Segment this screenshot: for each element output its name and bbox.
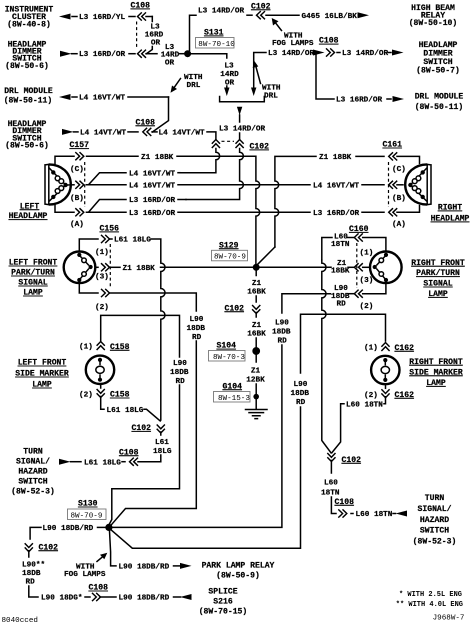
svg-text:L3 14RD/OR: L3 14RD/OR <box>268 50 315 58</box>
svg-text:(A): (A) <box>392 221 406 229</box>
svg-text:L3 16RD/OR: L3 16RD/OR <box>336 97 383 105</box>
svg-text:L3 16RD/YL: L3 16RD/YL <box>79 14 126 22</box>
wire L90 18DB/RD from pin 2 <box>110 293 196 311</box>
svg-text:SIGNAL: SIGNAL <box>423 280 452 289</box>
svg-text:L4 16VT/WT: L4 16VT/WT <box>129 182 176 190</box>
C157 pin A chevron <box>75 208 84 216</box>
wire L3 14RD OR to splice S131 <box>146 53 157 55</box>
svg-text:C102: C102 <box>251 2 271 11</box>
arrow out of bracket down <box>237 107 242 116</box>
svg-text:C102: C102 <box>225 304 245 313</box>
headlamp dimmer switch label (8W-50-6) second <box>5 120 49 151</box>
svg-text:C108: C108 <box>319 37 339 46</box>
svg-text:RD: RD <box>26 579 36 587</box>
svg-text:SIGNAL/: SIGNAL/ <box>418 505 452 514</box>
svg-text:L3 16RD/OR: L3 16RD/OR <box>79 51 126 59</box>
left front side marker lamp label <box>15 359 69 390</box>
DRL module (8W-50-11) label right <box>415 92 464 112</box>
Z1 diagonal into S129 <box>257 247 275 265</box>
svg-text:L4 16VT/WT: L4 16VT/WT <box>313 182 360 190</box>
svg-text:TURN: TURN <box>425 494 445 503</box>
wire Z1 16BK down from S129 <box>255 271 257 276</box>
svg-text:8W-70-9: 8W-70-9 <box>214 254 246 262</box>
svg-text:LEFT: LEFT <box>20 202 40 211</box>
svg-text:C102: C102 <box>342 456 362 465</box>
left front park/turn signal lamp label <box>9 259 58 298</box>
wire C161 pin B to right headlamp <box>397 184 403 186</box>
svg-text:(8W-50-7): (8W-50-7) <box>416 67 460 76</box>
svg-text:HEADLAMP: HEADLAMP <box>431 215 470 224</box>
svg-text:(8W-52-3): (8W-52-3) <box>11 487 55 496</box>
arrow to DRL module (right) <box>393 96 405 102</box>
C160 pin 2 chevron <box>354 290 363 298</box>
svg-text:C157: C157 <box>70 141 90 150</box>
L61 vertical hop over this row <box>161 273 165 421</box>
connector C102 (L60 wire) <box>327 453 335 462</box>
svg-text:SPLICE: SPLICE <box>208 587 237 596</box>
svg-text:(2): (2) <box>95 304 109 312</box>
svg-text:18DB: 18DB <box>291 390 310 398</box>
svg-text:(1): (1) <box>95 249 109 257</box>
C156 pin 3 chevron <box>101 263 110 271</box>
svg-text:LEFT FRONT: LEFT FRONT <box>9 259 58 268</box>
C157 dashed link <box>84 162 86 207</box>
svg-text:* WITH 2.5L ENG: * WITH 2.5L ENG <box>399 591 462 599</box>
splice S216 label <box>199 587 248 616</box>
wire Z1 16BK below C102 <box>255 313 257 318</box>
L60 vertical from C160 pin1 down <box>322 260 331 453</box>
svg-text:L4 16VT/WT: L4 16VT/WT <box>129 170 176 178</box>
svg-text:(8W-50-10): (8W-50-10) <box>409 19 458 28</box>
arrow from turn signal/hazard switch (left) <box>59 459 71 465</box>
svg-text:C108: C108 <box>89 584 109 593</box>
splice S129 <box>253 264 260 271</box>
wire C160 pin3 right side to lamp <box>363 266 370 268</box>
svg-text:L3 14RD/OR: L3 14RD/OR <box>198 8 245 16</box>
wire L90 18DB RD from C160 pin 2 <box>282 294 331 313</box>
high beam relay label <box>409 4 458 28</box>
connector C108 (L4 wire) <box>143 128 152 136</box>
Z1 18BK right segment to right headlamp <box>275 156 316 247</box>
svg-text:(C): (C) <box>70 166 84 174</box>
svg-text:WITH: WITH <box>184 74 203 82</box>
svg-text:L90 18DB/RD: L90 18DB/RD <box>43 525 94 533</box>
svg-text:18DB: 18DB <box>170 369 189 377</box>
svg-text:(8W-70-15): (8W-70-15) <box>199 607 248 616</box>
wire L90 18DB/RD to splice S216 <box>100 596 116 598</box>
wire L4 14VT/WT row <box>74 131 79 133</box>
connector C108 (dimmer switch wire) <box>138 50 147 58</box>
C158 pin 1 chevron <box>97 342 105 351</box>
with drl annotation (left mid) with arrow <box>174 79 181 89</box>
wire from left side marker up and right (L90 branch) <box>101 315 180 357</box>
park lamp relay label <box>202 561 275 580</box>
wire pair L4 16VT/WT from pin B <box>87 173 127 185</box>
svg-text:SIGNAL/: SIGNAL/ <box>16 457 50 466</box>
connector C102 (Z1 wire) <box>252 305 260 314</box>
svg-text:(8W-50-11): (8W-50-11) <box>415 103 464 112</box>
svg-text:L61 18LG: L61 18LG <box>114 237 151 245</box>
instrument cluster label <box>5 6 54 30</box>
svg-text:(8W-40-8): (8W-40-8) <box>7 21 51 30</box>
C160 pin 1 chevron <box>354 233 363 241</box>
wire L61 18LG from pin 1 <box>110 238 112 240</box>
svg-text:S216: S216 <box>213 597 233 606</box>
wire lamp bottom to C158 pin2 <box>100 384 102 388</box>
svg-text:C108: C108 <box>131 2 151 11</box>
svg-text:(2): (2) <box>364 392 378 400</box>
svg-text:C156: C156 <box>100 225 120 234</box>
arrow to DRL module (left) <box>59 94 71 100</box>
svg-text:DRL: DRL <box>187 82 201 90</box>
C161 pin C chevron <box>389 152 398 160</box>
wire from S130 down to park lamp relay row <box>110 531 117 566</box>
svg-text:PARK/TURN: PARK/TURN <box>11 269 55 278</box>
wire L3 14RD/OR to headlamp dimmer switch 8W-50-7 <box>337 52 340 54</box>
wire from left headlamp mid to C157 pin B <box>68 184 75 186</box>
svg-text:C108: C108 <box>119 448 139 457</box>
wire branch down to DRL module (right) <box>316 53 334 100</box>
arrow to headlamp dimmer switch row5 <box>62 129 74 135</box>
ground G104 <box>253 394 259 400</box>
C157 pin B chevron <box>75 181 84 189</box>
svg-text:HEADLAMP: HEADLAMP <box>9 212 48 221</box>
connector C102 (L90 wire, bottom left) <box>25 543 33 552</box>
wire G465 16LB/BK <box>266 14 299 16</box>
right front side marker lamp symbol <box>371 356 399 384</box>
svg-text:FOG LAMPS: FOG LAMPS <box>64 571 106 579</box>
wire lamp top to C156 pin 1 <box>79 239 98 251</box>
svg-text:16RD: 16RD <box>145 31 164 39</box>
C161 pin B chevron <box>389 181 398 189</box>
svg-text:DRL MODULE: DRL MODULE <box>4 87 53 96</box>
svg-text:L4 14VT/WT: L4 14VT/WT <box>80 130 127 138</box>
svg-text:L61: L61 <box>155 439 169 447</box>
svg-text:(1): (1) <box>364 344 378 352</box>
svg-text:L90 18DB/RD: L90 18DB/RD <box>119 595 170 603</box>
svg-text:18DB: 18DB <box>272 328 291 336</box>
svg-text:Z1 18BK: Z1 18BK <box>141 154 174 162</box>
svg-text:SIGNAL: SIGNAL <box>18 279 47 288</box>
svg-text:L90: L90 <box>190 316 204 324</box>
C156 pin 1 chevron <box>101 235 110 243</box>
svg-text:18TN: 18TN <box>321 489 340 497</box>
svg-text:L4 14VT/WT: L4 14VT/WT <box>159 130 206 138</box>
svg-text:WITH: WITH <box>262 85 281 93</box>
C156 dashed link <box>109 244 111 288</box>
svg-text:DRL MODULE: DRL MODULE <box>415 92 464 101</box>
C161 dashed link <box>388 162 390 207</box>
arrow down into bracket (left) <box>224 88 229 97</box>
wire L3 16RD OR down from C108 <box>151 17 153 22</box>
wire L60 18TN from C160 pin 1 <box>322 238 332 261</box>
svg-text:PARK/TURN: PARK/TURN <box>416 269 460 278</box>
splice S104 <box>252 347 260 355</box>
connector C108 (to dimmer switch 8W-50-7) <box>326 48 335 56</box>
C161 pin A chevron <box>389 208 398 216</box>
arrow to splice S216 <box>180 594 192 600</box>
svg-text:C160: C160 <box>349 225 369 234</box>
arrow to high beam relay <box>358 12 370 18</box>
svg-text:(B): (B) <box>392 195 406 203</box>
wire C161 pin C to right headlamp <box>397 156 420 163</box>
svg-text:(C): (C) <box>392 166 406 174</box>
svg-text:FOG LAMPS: FOG LAMPS <box>272 40 314 48</box>
svg-text:8W-70-3: 8W-70-3 <box>213 354 245 362</box>
svg-text:C162: C162 <box>395 391 415 400</box>
svg-text:L61 18LG: L61 18LG <box>107 407 144 415</box>
wire Z1 12BK below S104 <box>255 355 257 362</box>
connector C102 (L61 wire) <box>157 425 165 434</box>
svg-text:L90 18DG*: L90 18DG* <box>41 595 83 603</box>
right headlamp symbol <box>405 164 431 204</box>
svg-text:RD: RD <box>176 378 186 386</box>
svg-text:(8W-50-6): (8W-50-6) <box>5 142 49 151</box>
wire branch: DRL feed joining L4 wire at C108 <box>153 97 169 132</box>
arrow on wire into C108 (to 8W-50-7) <box>313 50 325 56</box>
svg-text:18TN: 18TN <box>331 241 350 249</box>
svg-text:L3 16RD/OR: L3 16RD/OR <box>313 210 360 218</box>
wire L3 16RD/OR <box>72 53 78 55</box>
connector C102 left cavity <box>212 140 220 149</box>
wire L3 16RD/OR down from C102 to headlamp row <box>186 149 243 200</box>
svg-text:16BK: 16BK <box>247 330 266 338</box>
svg-text:LAMP: LAMP <box>23 289 43 298</box>
arrow down into bracket (right) <box>251 88 256 97</box>
svg-text:L3 16RD/OR: L3 16RD/OR <box>129 197 176 205</box>
turn signal/hazard switch label (left) <box>11 447 55 496</box>
wire L4 16VT/WT to DRL module <box>72 96 77 98</box>
svg-text:C158: C158 <box>110 391 130 400</box>
arrow to park lamp relay <box>180 563 192 569</box>
dashed link between C108 cavities <box>136 22 138 50</box>
svg-text:8W-70-10: 8W-70-10 <box>198 41 235 49</box>
wire L60 18TN below C102 <box>330 461 332 474</box>
connector C108 (L61 wire) <box>130 458 139 466</box>
svg-text:L90 18DB/RD: L90 18DB/RD <box>119 564 170 572</box>
wire Z1 18BK from pin C <box>87 155 139 157</box>
C157 pin C chevron <box>75 152 84 160</box>
svg-text:L3 14RD/OR: L3 14RD/OR <box>342 50 389 58</box>
wire L61 18LG below C102 <box>160 432 162 435</box>
svg-text:L60 18TN: L60 18TN <box>346 401 383 409</box>
svg-text:RD: RD <box>337 301 347 309</box>
DRL module (8W-50-11) label left <box>4 87 53 105</box>
right front park/turn signal lamp label <box>411 259 465 299</box>
left front side marker lamp symbol <box>86 356 114 384</box>
merge bracket under the two WITH-DRL arrows <box>220 97 265 102</box>
svg-text:18LG: 18LG <box>153 448 172 456</box>
with drl annotation (right) <box>256 65 261 84</box>
wire L61 18LG from C158 pin 2 <box>101 397 104 410</box>
svg-text:L90: L90 <box>173 360 187 368</box>
wire lamp mid to C156 pin 3 <box>95 266 98 268</box>
wire C160 pin1 right side to lamp top <box>363 238 386 252</box>
wire lamp bottom to C156 pin 2 <box>79 284 98 293</box>
svg-text:C108: C108 <box>136 118 156 127</box>
svg-text:OR: OR <box>165 59 175 67</box>
svg-text:C102: C102 <box>39 543 59 552</box>
svg-text:RIGHT: RIGHT <box>438 204 462 213</box>
svg-text:SIDE MARKER: SIDE MARKER <box>15 370 69 379</box>
headlamp dimmer switch (8W-50-7) label <box>416 41 460 76</box>
svg-text:TURN: TURN <box>23 447 43 456</box>
left front park/turn signal lamp symbol <box>64 251 96 283</box>
svg-text:L60: L60 <box>324 479 338 487</box>
svg-text:L3: L3 <box>224 63 234 71</box>
svg-text:L90**: L90** <box>22 562 45 570</box>
svg-text:RD: RD <box>278 337 288 345</box>
svg-text:HAZARD: HAZARD <box>420 516 449 525</box>
svg-text:S104: S104 <box>217 342 237 351</box>
svg-text:(3): (3) <box>95 273 109 281</box>
wire C161 pin A to right headlamp <box>397 206 420 213</box>
C160 dashed link <box>356 243 358 288</box>
wire Z1 18BK from S129 to C160 pin 3 <box>260 266 331 268</box>
svg-text:Z1: Z1 <box>252 322 262 330</box>
svg-text:LAMP: LAMP <box>428 290 448 299</box>
wire from left headlamp bottom to C157 pin A <box>55 205 74 213</box>
wire from left headlamp top to C157 pin C <box>55 156 74 164</box>
svg-text:L3 14RD/OR: L3 14RD/OR <box>219 125 266 133</box>
left headlamp symbol <box>45 164 71 204</box>
C156 pin 2 chevron <box>101 289 110 297</box>
svg-text:(3): (3) <box>360 277 374 285</box>
with fog lamps annotation (top) <box>275 22 282 31</box>
svg-text:C162: C162 <box>395 344 415 353</box>
svg-text:14RD: 14RD <box>161 51 180 59</box>
arrow from turn signal/hazard switch (right) <box>396 511 408 517</box>
hop arcs of L61 over Z1 row <box>161 262 165 272</box>
svg-text:8W-70-9: 8W-70-9 <box>71 512 103 520</box>
wire L90** 18DB RD below C102 <box>28 551 30 557</box>
svg-text:(1): (1) <box>79 343 93 351</box>
svg-text:8W-15-3: 8W-15-3 <box>218 395 250 403</box>
headlamp dimmer switch label (8W-50-6) <box>5 40 49 71</box>
svg-text:C102: C102 <box>250 143 270 152</box>
svg-text:S129: S129 <box>219 241 239 250</box>
splice S130 <box>105 524 112 531</box>
wire Z1 18BK from pin 3 to S129 <box>110 266 120 268</box>
svg-text:C102: C102 <box>132 424 152 433</box>
svg-text:L61 18LG: L61 18LG <box>84 459 121 467</box>
C162 pin 1 chevron <box>381 343 389 352</box>
arrow to headlamp dimmer switch <box>60 51 72 57</box>
svg-text:SIDE MARKER: SIDE MARKER <box>409 368 463 377</box>
svg-text:RIGHT FRONT: RIGHT FRONT <box>409 358 463 367</box>
right front side marker lamp label <box>409 358 463 388</box>
svg-text:C161: C161 <box>383 141 403 150</box>
wire L90 18DB/RD left from S130 <box>98 526 106 528</box>
wire L4 14VT/WT to C102 <box>152 131 157 133</box>
wire L3 14RD/OR from headlamp dimmer switch C108 (right) <box>254 53 266 88</box>
wire from S131 up to high-beam-relay row <box>190 15 197 50</box>
svg-text:LAMP: LAMP <box>32 381 52 390</box>
wire L60 18TN to turn signal switch <box>351 513 353 515</box>
Z1 18BK corner down to S129 <box>255 156 259 263</box>
right front park/turn signal lamp symbol <box>370 251 402 283</box>
wire C160 pin2 right side to lamp bottom <box>363 284 386 294</box>
svg-text:L90: L90 <box>294 381 308 389</box>
svg-text:PARK LAMP RELAY: PARK LAMP RELAY <box>202 561 275 570</box>
svg-text:(8W-52-3): (8W-52-3) <box>413 538 457 547</box>
svg-text:14RD: 14RD <box>220 71 239 79</box>
svg-text:18DB: 18DB <box>22 570 41 578</box>
svg-text:18BK: 18BK <box>331 267 350 275</box>
svg-text:Z1 18BK: Z1 18BK <box>123 265 156 273</box>
C160 pin 3 chevron <box>354 263 363 271</box>
svg-text:(8W-50-11): (8W-50-11) <box>4 96 53 105</box>
C162 pin 2 chevron <box>381 389 389 398</box>
connector C102 (high beam relay wire) <box>257 11 266 19</box>
svg-text:HAZARD: HAZARD <box>18 467 47 476</box>
svg-text:Z1: Z1 <box>252 280 262 288</box>
svg-text:12BK: 12BK <box>246 376 265 384</box>
svg-text:SWITCH: SWITCH <box>18 477 47 486</box>
wire from S131 right then down (L3 14RD OR branch) <box>191 54 227 58</box>
svg-text:L3 16RD/OR: L3 16RD/OR <box>129 210 176 218</box>
ground symbol <box>246 399 268 419</box>
wire L60 18TN from C162 pin 2 <box>385 384 387 388</box>
connector C108 (L60 wire) <box>338 509 347 517</box>
svg-text:18DB: 18DB <box>187 325 206 333</box>
svg-text:C158: C158 <box>110 343 130 352</box>
svg-text:S131: S131 <box>204 29 224 38</box>
arrow to instrument cluster <box>59 14 71 20</box>
svg-text:(A): (A) <box>70 221 84 229</box>
connector C102 right cavity <box>236 140 244 149</box>
connector C108 (bottom left) <box>92 593 101 601</box>
svg-text:RIGHT FRONT: RIGHT FRONT <box>411 259 465 268</box>
svg-text:RD: RD <box>296 399 306 407</box>
svg-text:L90: L90 <box>275 319 289 327</box>
svg-text:(2): (2) <box>79 392 93 400</box>
svg-text:G465 16LB/BK: G465 16LB/BK <box>302 13 358 21</box>
svg-text:8040cced: 8040cced <box>2 617 38 623</box>
svg-text:J968W-7: J968W-7 <box>433 615 465 623</box>
splice S131 <box>184 50 191 57</box>
turn signal/hazard switch label (right) <box>413 494 457 547</box>
svg-text:DRL: DRL <box>264 92 278 100</box>
svg-text:LEFT FRONT: LEFT FRONT <box>18 359 67 368</box>
wire pair L3 16RD/OR from pin A <box>87 200 127 213</box>
svg-text:(2): (2) <box>360 303 374 311</box>
svg-text:16BK: 16BK <box>247 288 266 296</box>
svg-text:C108: C108 <box>335 498 355 507</box>
wire L4 16VT/WT down from C102 to headlamp row <box>180 149 220 173</box>
svg-text:L60 18TN: L60 18TN <box>356 511 393 519</box>
svg-text:Z1 18BK: Z1 18BK <box>319 154 352 162</box>
svg-text:S130: S130 <box>78 500 98 509</box>
svg-text:(1): (1) <box>360 250 374 258</box>
svg-text:(8W-50-9): (8W-50-9) <box>216 571 260 580</box>
C158 pin 2 chevron <box>97 389 105 398</box>
right side marker feed wire L90 <box>301 314 386 373</box>
svg-text:(8W-50-6): (8W-50-6) <box>5 62 49 71</box>
svg-text:LAMP: LAMP <box>426 379 446 388</box>
svg-text:L4 16VT/WT: L4 16VT/WT <box>79 95 126 103</box>
svg-text:Z1: Z1 <box>251 367 261 375</box>
svg-text:** WITH 4.0L ENG: ** WITH 4.0L ENG <box>396 601 463 609</box>
connector C108 (instrument cluster wire) <box>138 12 147 20</box>
svg-text:G104: G104 <box>223 382 243 391</box>
wire L61 18LG to turn signal switch <box>122 461 125 463</box>
dashed link between C102 cavities <box>222 140 235 142</box>
wire L3 16RD/YL <box>72 16 77 18</box>
wire L3 14RD/OR down to C102 <box>239 115 241 122</box>
svg-text:(B): (B) <box>70 195 84 203</box>
svg-text:SWITCH: SWITCH <box>420 527 449 536</box>
